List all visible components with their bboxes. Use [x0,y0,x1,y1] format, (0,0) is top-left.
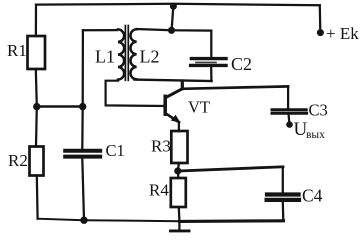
svg-text:L1: L1 [95,47,115,67]
svg-text:R3: R3 [151,137,171,156]
svg-text:C1: C1 [106,141,125,160]
svg-text:L2: L2 [140,47,160,67]
svg-text:C3: C3 [309,101,328,120]
svg-text:C2: C2 [231,54,252,74]
svg-text:R2: R2 [8,151,28,170]
svg-text:вых: вых [306,129,325,141]
svg-text:+ Ek: + Ek [326,24,359,43]
svg-text:VT: VT [188,98,210,117]
svg-text:C4: C4 [302,185,323,205]
svg-text:R1: R1 [7,41,27,60]
svg-text:R4: R4 [149,181,169,200]
